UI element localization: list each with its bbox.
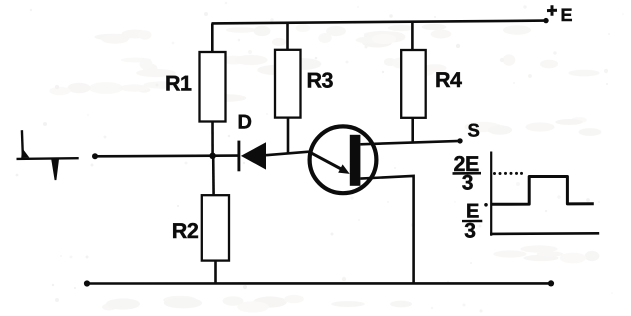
label: 2E/3 fraction bar: [453, 172, 482, 175]
label: R4: [435, 68, 462, 92]
output waveform: trace: [492, 177, 594, 205]
label: 3 denominator of 2E/3: [462, 172, 474, 195]
svg-text:D: D: [238, 112, 252, 134]
label: D: [238, 112, 252, 134]
wire: R1 top lead from rail: [211, 23, 214, 52]
wire: diode anode to transistor emitter: [266, 152, 309, 156]
resistor R2: [202, 195, 229, 260]
label: E numerator: [466, 200, 479, 222]
diode D: cathode bar: [237, 141, 240, 172]
svg-text:R2: R2: [172, 219, 199, 243]
resistor R4: [401, 50, 426, 118]
wire: R3 bottom lead to emitter line: [287, 118, 290, 154]
diode D: arrow body: [241, 142, 266, 169]
output waveform: horizontal axis: [490, 232, 599, 235]
svg-text:3: 3: [464, 219, 476, 242]
node: input terminal dot: [92, 153, 98, 159]
wire: R2 bottom lead to ground rail: [214, 261, 217, 284]
node: +E terminal dot: [543, 18, 548, 23]
wire: input line to diode: [95, 154, 239, 157]
svg-text:R4: R4: [435, 68, 462, 92]
wire: R3 top lead from rail: [286, 23, 289, 50]
power symbol: + sign of +E supply: [547, 5, 557, 16]
label: E/3 fraction bar: [462, 220, 482, 223]
wire: +E top supply rail: [212, 21, 547, 24]
wire: R2 top lead from input node: [212, 156, 215, 196]
output waveform: 2E/3 dotted level line: [493, 172, 523, 175]
output waveform: vertical axis: [490, 152, 492, 236]
label: R3: [307, 68, 334, 92]
node: ground rail right dot: [548, 280, 554, 286]
node: S output terminal dot: [457, 138, 462, 143]
transistor Q1: envelope circle: [310, 126, 377, 193]
label: 3 denominator of E/3: [464, 219, 476, 242]
wire: ground rail: [87, 282, 551, 285]
label: R1: [165, 72, 192, 96]
node: junction R1/R2/input: [209, 153, 216, 160]
svg-text:R1: R1: [165, 72, 192, 96]
wire: base-two to output S: [360, 141, 460, 144]
transistor Q1: base bar: [350, 135, 361, 186]
resistor R1: [200, 52, 226, 122]
wire: R4 top lead from rail: [411, 21, 414, 50]
resistor R3: [275, 50, 301, 118]
label: E supply name: [561, 5, 573, 25]
input trigger waveform: positive spike: [21, 130, 29, 158]
wire: R4 bottom lead to S line: [411, 118, 414, 143]
label: R2: [172, 219, 199, 243]
input trigger waveform: negative spike: [51, 158, 59, 181]
svg-text:R3: R3: [307, 68, 334, 92]
input trigger waveform: baseline: [17, 157, 79, 160]
label: 2E numerator: [454, 152, 479, 176]
svg-text:E: E: [561, 5, 573, 25]
label: S: [468, 120, 480, 141]
output waveform: E/3 level tick dot: [484, 203, 488, 207]
wire: R1 bottom lead to input node: [211, 122, 214, 157]
svg-text:3: 3: [462, 172, 474, 195]
transistor Q1: emitter arrow: [309, 152, 350, 174]
wire: base-one to ground rail: [360, 176, 413, 283]
svg-text:S: S: [468, 120, 480, 141]
node: ground rail left dot: [84, 280, 90, 286]
